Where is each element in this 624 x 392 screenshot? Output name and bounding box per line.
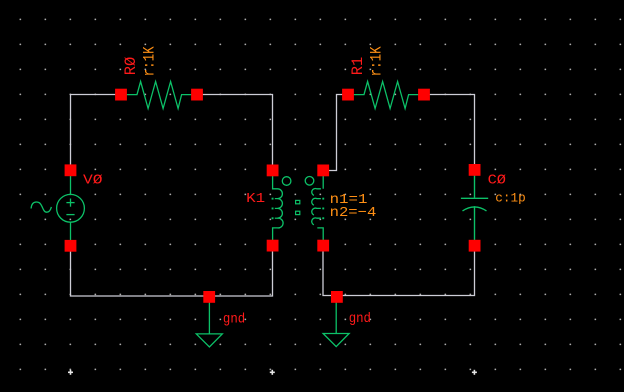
K1 core mark top: [296, 200, 300, 203]
K1 polarity dot secondary: [305, 177, 314, 186]
pin C0.2: [469, 240, 481, 252]
svg-text:CØ: CØ: [488, 173, 506, 189]
origin cross 2: [270, 370, 275, 375]
svg-text:VØ: VØ: [83, 172, 103, 188]
K1 secondary winding taps: [322, 198, 324, 220]
resistor R1: [354, 82, 419, 109]
svg-text:gnd: gnd: [349, 312, 371, 327]
capacitor C0: [461, 176, 488, 241]
pin K1.p1: [267, 165, 279, 177]
pin K1.s1: [317, 165, 329, 177]
pin R0.1: [115, 89, 127, 101]
resistor R0: [127, 82, 192, 109]
K1 primary winding taps: [272, 198, 274, 220]
pin R1.1: [342, 89, 354, 101]
svg-text:K1: K1: [246, 191, 265, 207]
pin K1.s2: [317, 240, 329, 252]
pin C0.1: [469, 164, 481, 176]
svg-text:R1: R1: [349, 57, 367, 76]
pin gnd2: [331, 291, 343, 303]
svg-text:RØ: RØ: [122, 56, 140, 75]
ground gnd1: [196, 303, 222, 348]
svg-text:r:1K: r:1K: [367, 46, 385, 77]
pin V0.minus: [65, 240, 77, 252]
K1 polarity dot primary: [282, 177, 291, 186]
svg-text:gnd: gnd: [223, 313, 245, 328]
pin V0.plus: [65, 164, 77, 176]
pin R1.2: [418, 89, 430, 101]
svg-text:n2=−4: n2=−4: [330, 205, 377, 221]
ground gnd2: [323, 303, 349, 347]
svg-text:c:1p: c:1p: [495, 191, 526, 206]
wire left loop: [71, 95, 273, 297]
pin K1.p2: [267, 240, 279, 252]
vsource V0: [31, 176, 84, 240]
svg-text:r:1K: r:1K: [140, 46, 158, 77]
pin R0.2: [191, 89, 203, 101]
transformer K1 secondary coil: [312, 176, 323, 240]
transformer K1 primary coil: [273, 176, 283, 240]
K1 core mark bottom: [296, 211, 300, 214]
origin cross 3: [472, 370, 477, 375]
pin gnd1: [203, 291, 215, 303]
wire right loop: [323, 95, 475, 296]
origin cross 1: [68, 370, 73, 375]
